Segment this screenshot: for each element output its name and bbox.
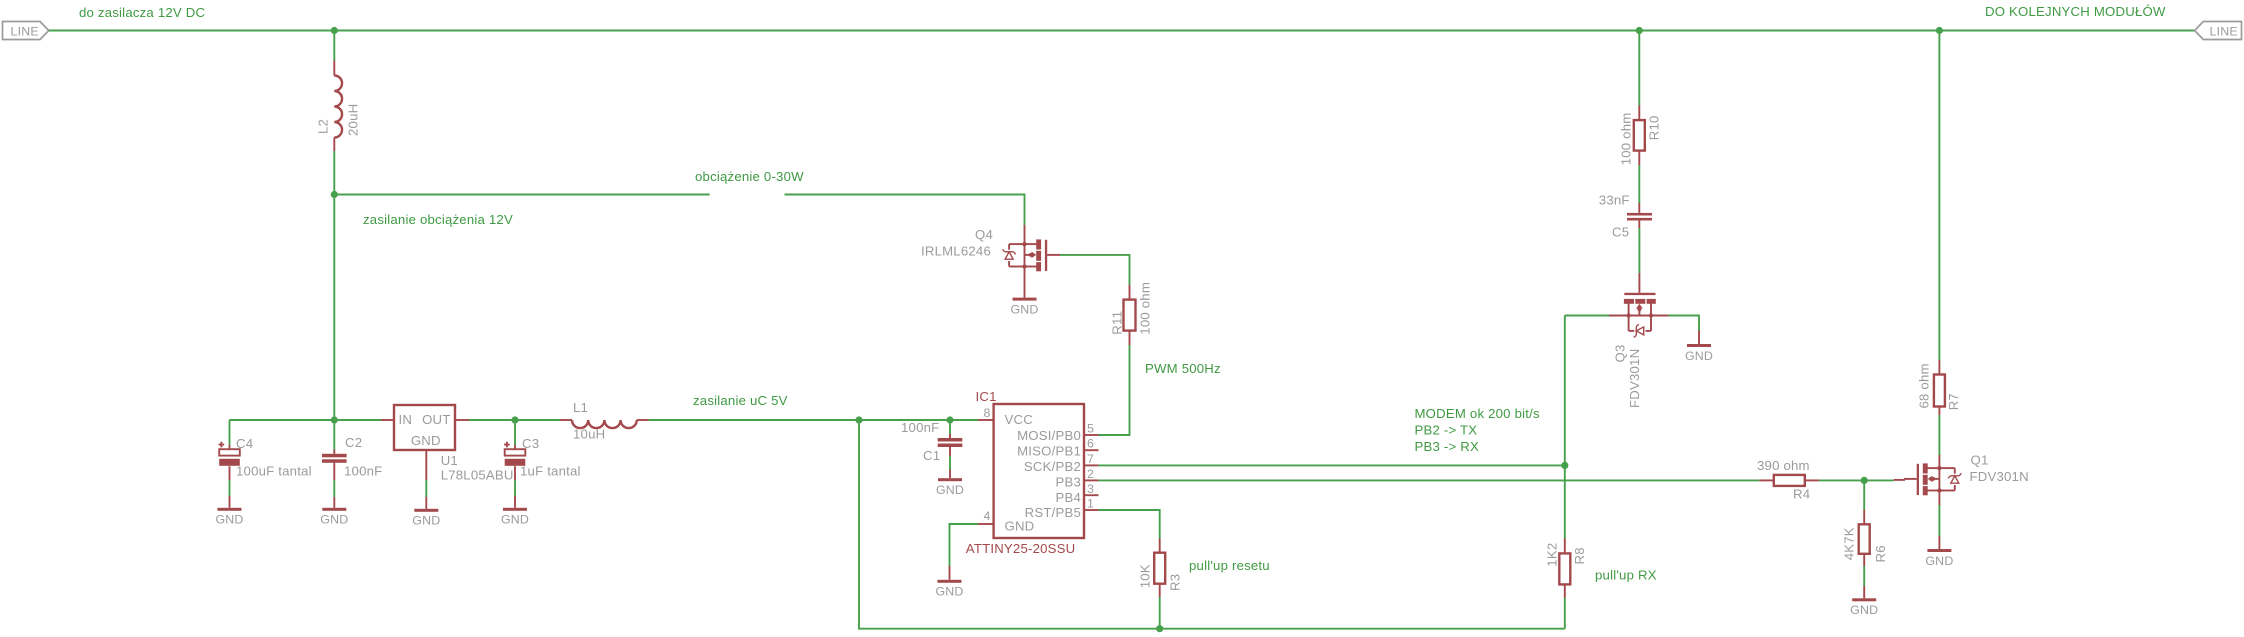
svg-text:3: 3	[1087, 482, 1094, 496]
wire R10 to C5	[1638, 165, 1640, 203]
ground C4	[215, 466, 243, 526]
svg-text:C3: C3	[522, 436, 539, 451]
svg-text:4: 4	[984, 509, 991, 523]
svg-text:1uF tantal: 1uF tantal	[520, 464, 581, 479]
LINE flag left	[3, 22, 49, 40]
svg-text:SCK/PB2: SCK/PB2	[1024, 459, 1081, 474]
node junction rail/L2	[331, 27, 338, 34]
svg-text:zasilanie obciążenia 12V: zasilanie obciążenia 12V	[363, 212, 513, 227]
svg-text:33nF: 33nF	[1599, 193, 1630, 208]
IC IC1 ATTINY25-20SSU	[966, 389, 1099, 556]
svg-text:2: 2	[1087, 467, 1094, 481]
svg-text:R7: R7	[1946, 393, 1961, 410]
svg-text:6: 6	[1087, 437, 1094, 451]
ground U1	[412, 450, 440, 528]
wire L2 node down to main rail	[333, 195, 335, 421]
wire IC1 pin4 to ground	[950, 524, 979, 566]
svg-text:MISO/PB1: MISO/PB1	[1017, 444, 1081, 459]
svg-text:100nF: 100nF	[901, 420, 939, 435]
wire IC1 pin2 PB3 net	[1099, 479, 1760, 481]
node junction R3/rail	[1156, 625, 1163, 632]
svg-text:L2: L2	[316, 119, 331, 134]
resistor R6 4K7K	[1841, 510, 1887, 566]
svg-text:20uH: 20uH	[346, 104, 361, 136]
wire IC1 pin1 RST to R3	[1099, 510, 1160, 539]
svg-text:U1: U1	[441, 453, 458, 468]
node junction rail/C3	[511, 416, 518, 423]
svg-text:R6: R6	[1873, 545, 1888, 562]
wire rail to R10	[1638, 31, 1640, 106]
svg-text:pull'up resetu: pull'up resetu	[1189, 558, 1270, 573]
voltage regulator U1 L78L05ABU	[381, 405, 514, 483]
wire top LINE rail	[49, 30, 2195, 32]
inductor L2 20uH	[316, 61, 361, 152]
svg-text:VCC: VCC	[1005, 412, 1034, 427]
node junction C1	[946, 416, 953, 423]
wire Q3 drain to TX net	[1565, 315, 1609, 317]
svg-text:390 ohm: 390 ohm	[1757, 458, 1810, 473]
ground R6	[1850, 566, 1878, 617]
svg-text:FDV301N: FDV301N	[1970, 469, 2029, 484]
svg-text:Q1: Q1	[1971, 453, 1989, 468]
wire junction to R6	[1863, 480, 1865, 510]
svg-text:GND: GND	[1005, 519, 1035, 534]
svg-text:1K2: 1K2	[1544, 543, 1559, 567]
svg-text:5: 5	[1087, 422, 1094, 436]
wire TX net vertical	[1564, 316, 1566, 539]
svg-text:PB2 -> TX: PB2 -> TX	[1415, 422, 1478, 437]
svg-text:1: 1	[1087, 497, 1094, 511]
svg-text:100 ohm: 100 ohm	[1138, 282, 1153, 335]
resistor R7 68 ohm	[1916, 360, 1961, 415]
resistor R10 100 ohm	[1618, 106, 1661, 166]
svg-text:R8: R8	[1572, 547, 1587, 564]
capacitor C2 100nF	[322, 420, 382, 479]
svg-text:do zasilacza 12V DC: do zasilacza 12V DC	[79, 5, 205, 20]
svg-text:PB3 -> RX: PB3 -> RX	[1415, 439, 1479, 454]
svg-text:C4: C4	[236, 436, 253, 451]
svg-text:10uH: 10uH	[573, 427, 605, 442]
svg-text:100uF tantal: 100uF tantal	[236, 464, 312, 479]
node junction R6	[1861, 477, 1868, 484]
wire C5 to Q3 gate	[1638, 228, 1640, 273]
svg-text:C2: C2	[345, 435, 362, 450]
wire rail to R7	[1938, 31, 1940, 361]
wire R3 to 5V rail	[1159, 597, 1161, 629]
svg-text:R11: R11	[1110, 311, 1125, 335]
ground Q3	[1685, 330, 1713, 362]
wire R4 to Q1 gate	[1819, 479, 1894, 481]
svg-text:68 ohm: 68 ohm	[1916, 363, 1931, 408]
svg-text:8: 8	[984, 406, 991, 420]
wire R8 to 5V rail	[1564, 598, 1566, 629]
svg-text:LINE: LINE	[2210, 24, 2238, 38]
resistor R8 1K2	[1544, 539, 1587, 599]
svg-text:PWM 500Hz: PWM 500Hz	[1145, 361, 1221, 376]
ground C1	[936, 447, 964, 497]
ground Q4	[1010, 267, 1038, 317]
resistor R3 10k	[1137, 539, 1182, 598]
svg-text:R4: R4	[1793, 487, 1810, 502]
wire rail to L2	[333, 31, 335, 61]
svg-text:zasilanie uC 5V: zasilanie uC 5V	[693, 393, 788, 408]
transistor Q3 FDV301N	[1609, 273, 1669, 408]
node junction TX net	[1561, 462, 1568, 469]
wire U1 OUT to L1	[469, 419, 560, 421]
inductor L1 10uH	[560, 400, 649, 442]
svg-text:Q4: Q4	[975, 227, 993, 242]
resistor R4 390 ohm	[1757, 458, 1819, 502]
svg-text:R10: R10	[1646, 115, 1661, 140]
svg-text:C5: C5	[1612, 225, 1629, 240]
node junction obciazenie	[331, 191, 338, 198]
svg-text:ATTINY25-20SSU: ATTINY25-20SSU	[966, 541, 1076, 556]
svg-text:100nF: 100nF	[344, 464, 382, 479]
svg-text:IRLML6246: IRLML6246	[921, 244, 991, 259]
capacitor C1 100nF	[901, 420, 962, 463]
svg-text:Q3: Q3	[1613, 345, 1628, 363]
resistor R11 100 ohm	[1110, 282, 1153, 345]
svg-text:C1: C1	[923, 448, 940, 463]
wire 5V riser and bottom rail	[859, 420, 1565, 629]
svg-text:MOSI/PB0: MOSI/PB0	[1017, 428, 1081, 443]
svg-text:LINE: LINE	[11, 24, 39, 38]
node junction rail/R10	[1636, 27, 1643, 34]
capacitor C4 100uF tantal	[219, 420, 312, 479]
wire R11 to IC1 pin5	[1099, 345, 1130, 435]
svg-text:MODEM ok 200 bit/s: MODEM ok 200 bit/s	[1415, 406, 1540, 421]
wire obciazenie left segment	[334, 194, 709, 196]
capacitor C5 33nF	[1599, 193, 1652, 240]
wire R7 to Q1 drain	[1938, 415, 1940, 455]
wire Q3 source to ground	[1669, 316, 1700, 331]
svg-text:FDV301N: FDV301N	[1627, 349, 1642, 408]
wire obciazenie right segment to Q4 drain	[785, 195, 1025, 226]
svg-text:pull'up RX: pull'up RX	[1595, 568, 1657, 583]
svg-text:obciążenie 0-30W: obciążenie 0-30W	[695, 169, 804, 184]
capacitor C3 1uF tantal	[504, 420, 581, 479]
svg-text:GND: GND	[411, 433, 441, 448]
svg-text:10K: 10K	[1137, 564, 1152, 588]
wire L2 to obciazenie node	[333, 151, 335, 195]
transistor Q4 IRLML6246	[921, 225, 1060, 271]
node junction 5V riser	[855, 416, 862, 423]
ground C3	[501, 466, 529, 526]
svg-text:IC1: IC1	[976, 389, 997, 404]
LINE flag right	[2195, 22, 2242, 40]
svg-text:L1: L1	[573, 400, 588, 415]
svg-text:L78L05ABU: L78L05ABU	[441, 468, 514, 483]
svg-text:R3: R3	[1168, 574, 1183, 591]
wire L1 to IC1 VCC	[649, 419, 979, 421]
node junction rail/R7	[1936, 27, 1943, 34]
svg-text:DO KOLEJNYCH MODUŁÓW: DO KOLEJNYCH MODUŁÓW	[1985, 4, 2166, 19]
svg-text:PB4: PB4	[1055, 490, 1081, 505]
svg-text:100 ohm: 100 ohm	[1618, 113, 1633, 166]
svg-text:PB3: PB3	[1055, 475, 1081, 490]
node junction rail/C2	[331, 416, 338, 423]
wire IC1 pin7 TX net	[1099, 464, 1565, 466]
ground C2	[320, 463, 348, 527]
ground IC1 pin4	[935, 566, 963, 599]
svg-text:OUT: OUT	[422, 412, 450, 427]
wire main 12V rail C4 to U1	[230, 419, 382, 421]
svg-text:7: 7	[1087, 452, 1094, 466]
svg-text:IN: IN	[399, 412, 413, 427]
wire Q4 gate to R11	[1060, 255, 1130, 285]
ground Q1	[1925, 491, 1953, 568]
transistor Q1 FDV301N	[1894, 453, 2029, 496]
svg-text:4K7K: 4K7K	[1841, 527, 1856, 560]
